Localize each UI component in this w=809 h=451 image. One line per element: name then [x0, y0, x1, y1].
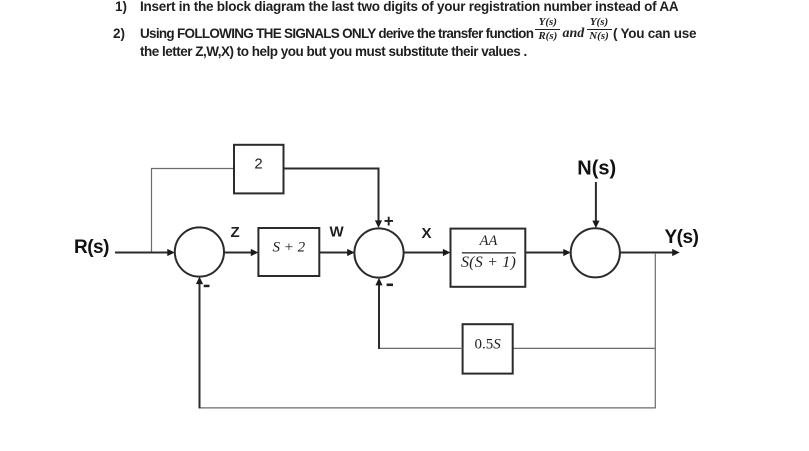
wire R(s) input arrow into summing junction S1	[115, 249, 175, 256]
wire from block 2 right and down into summing junction S2 (+)	[284, 169, 383, 228]
svg-text:AA: AA	[479, 233, 498, 249]
word and	[563, 26, 585, 42]
wire N(s) input down into S3	[592, 182, 599, 228]
label - at S2 bottom	[387, 284, 393, 287]
wire up into S1 bottom (-)	[196, 277, 203, 409]
label Y(s)	[665, 227, 699, 248]
label Z	[231, 224, 240, 241]
wire X from S2 to block AA	[404, 249, 451, 256]
label N(s)	[577, 158, 616, 180]
wire from block AA to summing junction S3	[525, 249, 571, 256]
svg-text:S + 2: S + 2	[272, 240, 305, 256]
svg-text:0.5S: 0.5S	[474, 337, 501, 353]
svg-text:S(S + 1): S(S + 1)	[461, 254, 516, 271]
svg-text:R(s): R(s)	[74, 237, 109, 258]
label R(s)	[74, 237, 109, 258]
summing junction S2	[354, 228, 403, 277]
label - at S1 bottom	[204, 285, 210, 288]
wire gray bottom feedback from tap to left	[200, 407, 656, 409]
fraction Y(s)/N(s)	[587, 18, 612, 42]
wire Z from S1 to block S+2	[224, 249, 258, 256]
block S+2	[258, 228, 319, 276]
instruction line 1	[115, 0, 127, 15]
wire gray from tap left into block 0.5S	[513, 347, 656, 349]
svg-text:2: 2	[254, 156, 262, 173]
block 0.5S	[463, 324, 513, 373]
wire W from block S+2 to summing junction S2	[319, 249, 354, 256]
instruction line 2	[113, 26, 125, 42]
svg-text:X: X	[422, 225, 432, 242]
block gain 2	[234, 145, 284, 194]
block AA/S(S+1)	[451, 229, 526, 287]
svg-text:N(s): N(s)	[577, 158, 616, 180]
svg-text:W: W	[330, 224, 345, 241]
label W	[330, 224, 345, 241]
wire gray from block 0.5S left to corner	[379, 347, 463, 349]
summing junction S1	[175, 227, 224, 276]
label X	[422, 225, 432, 242]
label + at S2 top	[385, 217, 394, 226]
fraction Y(s)/R(s)	[535, 18, 560, 42]
svg-text:Z: Z	[231, 224, 240, 241]
wire up into S2 bottom (-)	[375, 278, 382, 349]
summing junction S3	[571, 228, 620, 277]
instruction line 3	[140, 44, 527, 60]
svg-text:Y(s): Y(s)	[665, 227, 699, 248]
wire gray tap from R(s) line up and right to block 2	[152, 169, 235, 252]
wire gray tap down from output	[654, 253, 656, 408]
wire output Y(s) arrow	[620, 249, 680, 256]
